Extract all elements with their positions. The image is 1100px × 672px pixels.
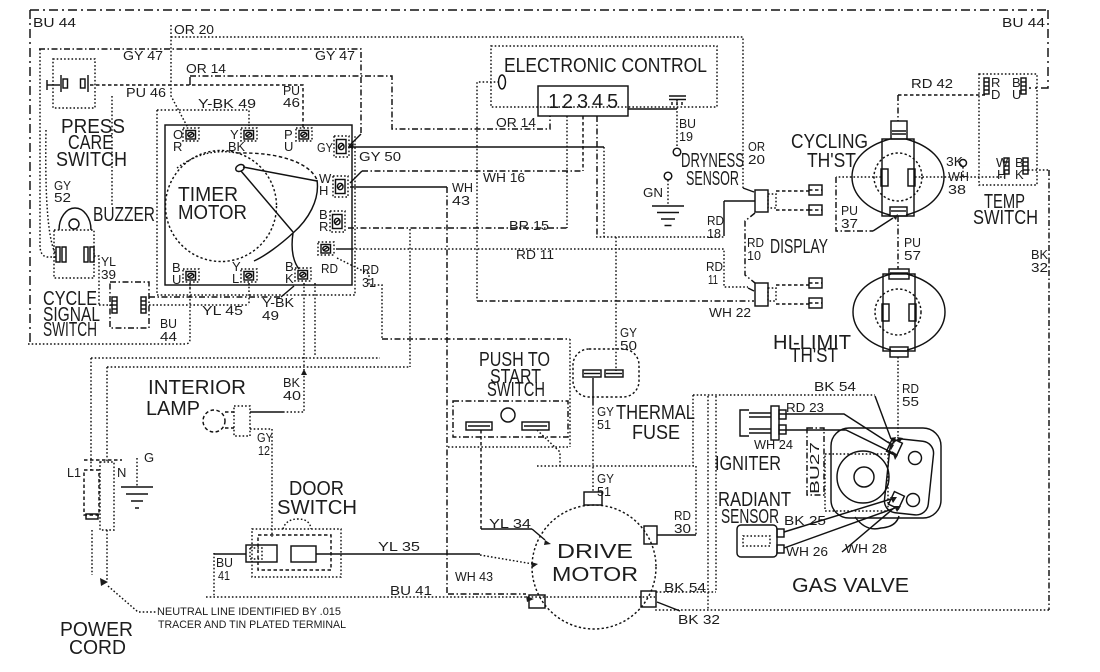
svg-text:H: H (319, 183, 328, 198)
svg-text:32: 32 (1031, 260, 1048, 275)
svg-text:BK: BK (228, 139, 245, 154)
svg-text:5: 5 (607, 91, 618, 113)
svg-text:BU 44: BU 44 (1002, 15, 1045, 30)
svg-text:GN: GN (643, 185, 663, 200)
svg-text:OR 14: OR 14 (496, 115, 536, 130)
svg-text:MOTOR: MOTOR (178, 202, 247, 224)
svg-text:51: 51 (597, 417, 611, 432)
svg-text:2: 2 (562, 91, 573, 113)
svg-text:4: 4 (592, 91, 603, 113)
svg-text:10: 10 (747, 248, 761, 263)
svg-text:WH 16: WH 16 (483, 170, 525, 185)
svg-text:CORD: CORD (69, 637, 126, 659)
svg-text:WH 26: WH 26 (786, 544, 828, 559)
svg-text:Y-BK 49: Y-BK 49 (198, 96, 256, 111)
svg-text:BK 25: BK 25 (784, 513, 826, 528)
svg-text:YL 34: YL 34 (489, 516, 531, 531)
svg-text:WH 22: WH 22 (709, 305, 751, 320)
svg-text:SWITCH: SWITCH (56, 149, 127, 171)
svg-text:SWITCH: SWITCH (277, 497, 357, 519)
svg-text:RD 42: RD 42 (911, 76, 953, 91)
svg-text:YL 35: YL 35 (378, 539, 420, 554)
svg-text:U: U (172, 272, 181, 287)
svg-text:11: 11 (708, 272, 718, 287)
svg-text:H: H (997, 167, 1006, 182)
svg-text:55: 55 (902, 394, 919, 409)
svg-text:N: N (117, 465, 126, 480)
svg-text:3: 3 (577, 91, 588, 113)
svg-text:GY: GY (317, 140, 333, 155)
svg-text:INTERIOR: INTERIOR (148, 377, 246, 399)
svg-text:SWITCH: SWITCH (487, 379, 545, 401)
svg-text:31: 31 (362, 275, 376, 290)
svg-text:WH 43: WH 43 (455, 569, 493, 584)
svg-text:39: 39 (101, 267, 116, 282)
svg-text:BU27: BU27 (807, 442, 822, 494)
svg-text:BUZZER: BUZZER (93, 204, 155, 226)
svg-text:19: 19 (679, 129, 693, 144)
svg-text:L1: L1 (67, 465, 81, 480)
svg-text:K: K (1015, 167, 1024, 182)
svg-text:WH 24: WH 24 (754, 437, 793, 452)
svg-text:R: R (319, 219, 328, 234)
svg-text:SWITCH: SWITCH (973, 207, 1038, 229)
svg-text:FUSE: FUSE (632, 422, 680, 444)
svg-text:20: 20 (748, 152, 765, 167)
svg-text:DRIVE: DRIVE (557, 541, 633, 563)
svg-text:52: 52 (54, 190, 71, 205)
svg-text:BK 54: BK 54 (814, 379, 856, 394)
svg-text:TRACER AND TIN PLATED TERMINAL: TRACER AND TIN PLATED TERMINAL (158, 619, 346, 631)
svg-text:GY 47: GY 47 (315, 48, 355, 63)
svg-text:THERMAL: THERMAL (616, 402, 695, 424)
svg-text:1: 1 (548, 91, 559, 113)
svg-text:RD: RD (321, 261, 338, 276)
svg-text:38: 38 (948, 182, 966, 197)
svg-text:BR 15: BR 15 (509, 218, 549, 233)
svg-text:41: 41 (218, 568, 230, 583)
svg-text:DISPLAY: DISPLAY (770, 236, 828, 258)
svg-text:49: 49 (262, 308, 279, 323)
svg-text:GY 50: GY 50 (359, 149, 401, 164)
svg-text:D: D (991, 87, 1000, 102)
svg-text:U: U (284, 139, 293, 154)
svg-text:U: U (1012, 87, 1021, 102)
svg-text:SWITCH: SWITCH (43, 319, 97, 341)
svg-text:18: 18 (707, 226, 721, 241)
svg-text:40: 40 (283, 388, 301, 403)
svg-text:OR 14: OR 14 (186, 61, 226, 76)
svg-text:TH'ST: TH'ST (807, 150, 856, 172)
svg-text:OR 20: OR 20 (174, 22, 214, 37)
svg-text:LAMP: LAMP (146, 398, 200, 420)
svg-text:L: L (232, 271, 239, 286)
svg-text:43: 43 (452, 193, 470, 208)
svg-text:GAS VALVE: GAS VALVE (792, 575, 909, 597)
svg-text:RD 11: RD 11 (516, 247, 554, 262)
svg-text:PU 46: PU 46 (126, 85, 166, 100)
svg-text:K: K (285, 271, 294, 286)
svg-text:YL 45: YL 45 (202, 303, 243, 318)
svg-text:ELECTRONIC CONTROL: ELECTRONIC CONTROL (504, 55, 707, 77)
svg-text:R: R (173, 139, 182, 154)
svg-text:12: 12 (258, 443, 270, 458)
svg-text:50: 50 (620, 338, 637, 353)
svg-text:BU 44: BU 44 (33, 15, 76, 30)
svg-text:TH'ST: TH'ST (790, 345, 838, 367)
svg-text:SENSOR: SENSOR (686, 168, 739, 190)
svg-text:3K: 3K (946, 154, 963, 169)
svg-text:MOTOR: MOTOR (552, 564, 638, 586)
svg-text:BU 41: BU 41 (390, 583, 432, 598)
svg-text:57: 57 (904, 248, 921, 263)
svg-text:46: 46 (283, 95, 300, 110)
svg-text:WH 28: WH 28 (845, 541, 887, 556)
svg-text:44: 44 (160, 329, 177, 344)
svg-text:GY 47: GY 47 (123, 48, 163, 63)
svg-text:BK 32: BK 32 (678, 612, 720, 627)
svg-text:RD 23: RD 23 (786, 400, 824, 415)
svg-text:G: G (144, 450, 154, 465)
svg-text:IGNITER: IGNITER (715, 453, 781, 475)
svg-text:NEUTRAL LINE IDENTIFIED BY .01: NEUTRAL LINE IDENTIFIED BY .015 (157, 606, 341, 618)
svg-text:37: 37 (841, 216, 858, 231)
svg-text:BK 54: BK 54 (664, 580, 706, 595)
svg-text:30: 30 (674, 521, 691, 536)
